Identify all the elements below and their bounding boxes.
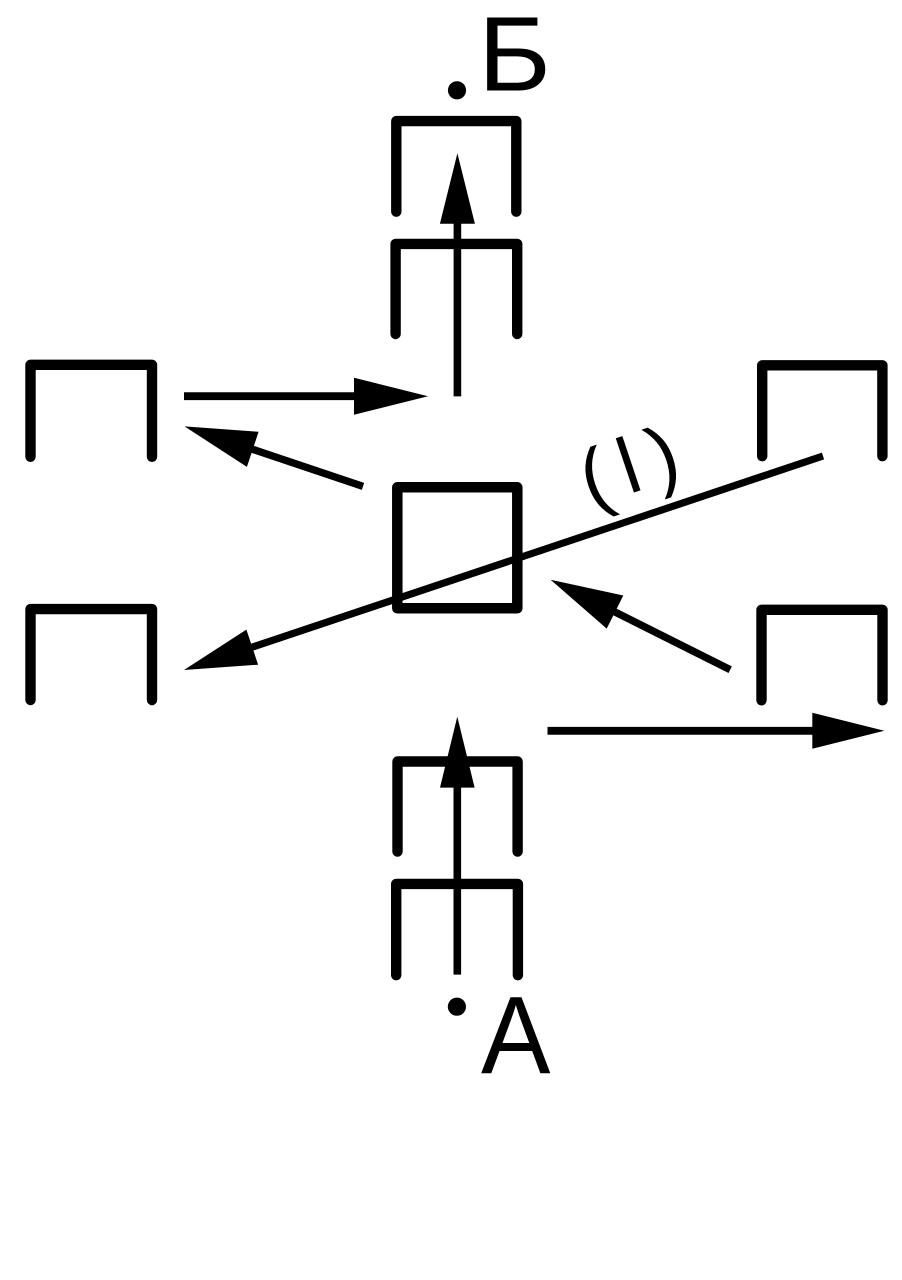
svg-text:Б: Б — [478, 0, 551, 114]
svg-text:А: А — [481, 974, 551, 1097]
